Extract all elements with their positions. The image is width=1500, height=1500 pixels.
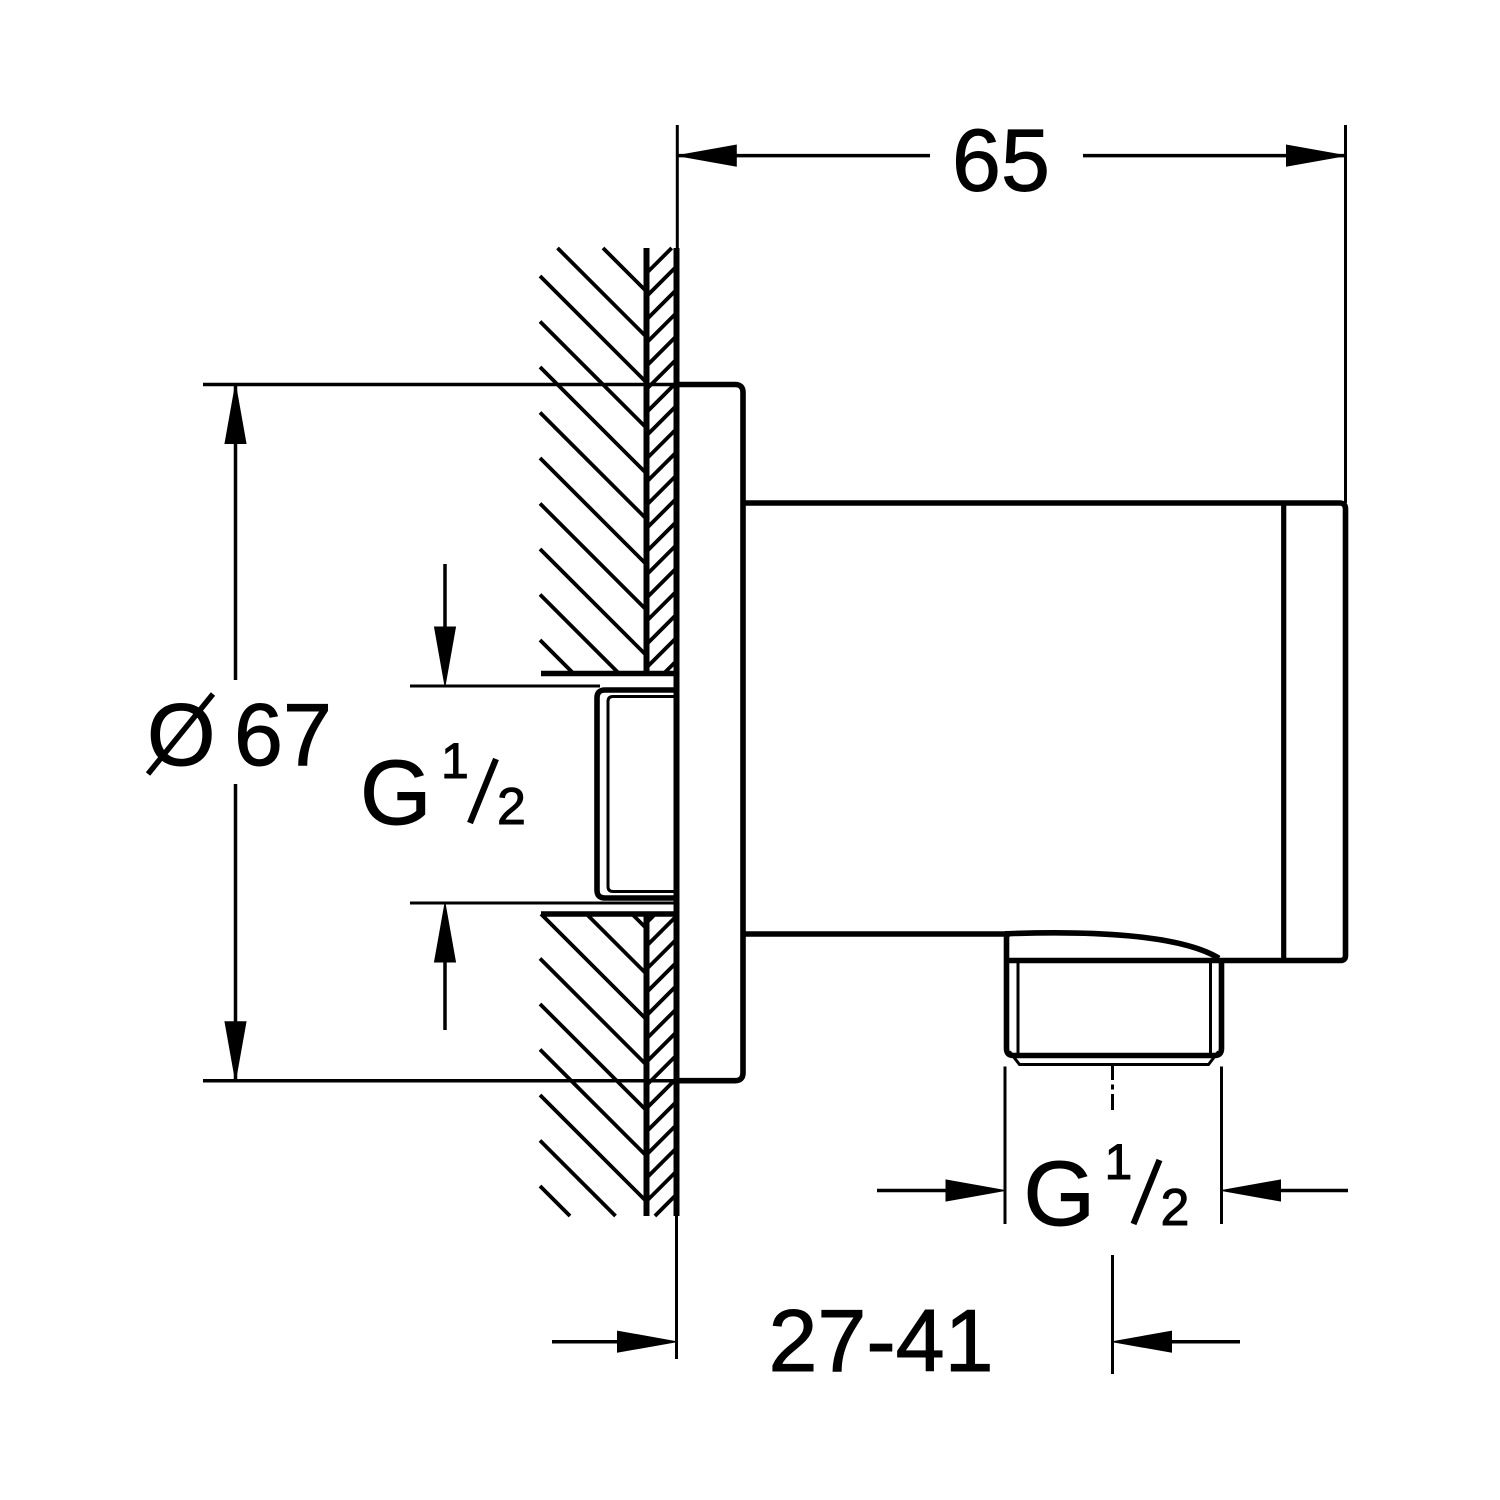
outlet thread end face line <box>1010 1052 1219 1065</box>
wall line lower extension <box>675 1216 678 1359</box>
dim dia67 arrowhead up <box>225 385 246 444</box>
dim dia67 text <box>147 685 332 784</box>
elbow outer curve <box>1005 933 1219 959</box>
svg-text:27-41: 27-41 <box>768 1291 993 1390</box>
body bottom edge <box>743 931 1010 937</box>
wall hole top cap line <box>541 671 677 677</box>
dim dia67 bottom line <box>203 1079 677 1083</box>
dim 27-41 arrowhead right-pointing <box>618 1331 677 1352</box>
wall hatch lower block surface ticks <box>647 914 677 1216</box>
end cap divider line <box>1281 505 1286 959</box>
dim dia67 vertical line lower <box>234 784 238 1081</box>
body top edge <box>743 503 1346 956</box>
label G 1/2 inlet <box>360 733 526 844</box>
outlet centerline dashes <box>1111 1066 1114 1110</box>
dim 65 line right segment <box>1083 154 1346 158</box>
nipple dim upper extension line <box>410 685 600 688</box>
outlet dim right arrow tail <box>1277 1189 1349 1193</box>
outlet centerline extension <box>1111 1255 1114 1374</box>
dim dia67 arrowhead down <box>225 1022 246 1081</box>
svg-text:1: 1 <box>1105 1134 1133 1190</box>
outlet thread core line right <box>1209 962 1212 1054</box>
svg-text:2: 2 <box>1161 1179 1190 1237</box>
svg-text:1: 1 <box>441 733 469 789</box>
nipple dim arrowhead up <box>435 903 456 962</box>
end section bottom edge <box>1007 956 1346 961</box>
svg-text:67: 67 <box>234 685 332 784</box>
svg-text:65: 65 <box>952 111 1050 210</box>
inlet nipple outer outline <box>597 690 677 898</box>
label G 1/2 outlet <box>1024 1134 1190 1245</box>
outlet dim arrowhead right-pointing <box>946 1180 1005 1201</box>
dim 65 arrowhead right <box>1287 145 1346 166</box>
dim dia67 top line <box>203 383 677 387</box>
dim 65 text <box>952 111 1050 210</box>
wall hatch inner boundary line upper <box>644 248 650 674</box>
nipple dim lower arrow tail <box>443 958 447 1030</box>
wall surface line <box>674 248 680 1216</box>
dim 65 extension line left <box>676 125 679 248</box>
nipple dim arrowhead down <box>435 627 456 686</box>
outlet dim extension line right <box>1220 1067 1223 1225</box>
dim 65 extension line right <box>1344 125 1347 503</box>
dim 27-41 right arrow tail <box>1168 1340 1241 1344</box>
svg-text:2: 2 <box>497 778 526 836</box>
outlet thread outer outline <box>1007 936 1222 1056</box>
dim 27-41 text <box>768 1291 993 1390</box>
svg-text:G: G <box>1024 1143 1096 1245</box>
dim 65 line left segment <box>677 154 930 158</box>
wall hole bottom cap line <box>541 911 677 917</box>
outlet dim arrowhead left-pointing <box>1222 1180 1281 1201</box>
wall hatch upper block diagonal lines <box>540 248 647 674</box>
nipple dim lower extension line <box>410 902 677 905</box>
dim 65 arrowhead left <box>677 145 736 166</box>
nipple dim upper arrow tail <box>443 564 447 631</box>
flange escutcheon outline <box>677 385 744 1081</box>
dim 27-41 arrowhead left-pointing <box>1113 1331 1172 1352</box>
inlet nipple thread core outline <box>608 697 677 892</box>
outlet dim left arrow tail <box>877 1189 952 1193</box>
wall hatch inner boundary line lower <box>644 914 650 1216</box>
dim 27-41 left arrow tail <box>552 1340 622 1344</box>
dim dia67 vertical line upper <box>234 385 238 681</box>
wall hatch upper block surface ticks <box>647 248 677 674</box>
outlet thread core line left <box>1017 962 1020 1054</box>
wall hatch lower block diagonal lines <box>540 914 647 1216</box>
svg-text:G: G <box>360 742 432 844</box>
outlet dim extension line left <box>1004 1067 1007 1225</box>
